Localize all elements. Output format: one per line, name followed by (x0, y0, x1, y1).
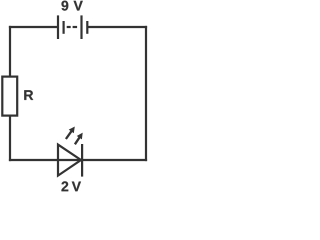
wire: top side, left of battery (9, 26, 58, 28)
wire: bottom side (9, 159, 147, 161)
LED light arrow 1 (upper left) (66, 127, 75, 140)
wire: top side, right of battery (87, 26, 147, 28)
battery plate: left cell short plate (62, 21, 64, 34)
battery value label 9 V (62, 1, 83, 11)
battery plate: right cell short plate (86, 21, 88, 34)
LED D1 triangle (anode) (58, 145, 81, 176)
resistor label R (24, 90, 33, 100)
wire: left side (9, 26, 11, 161)
battery plate: right cell long plate (80, 15, 82, 39)
battery plate: left cell long plate (57, 15, 59, 39)
battery dashed link dash 2 (73, 26, 78, 28)
resistor R (box symbol) (2, 77, 17, 116)
LED light arrow 2 (lower right) (75, 133, 83, 145)
battery B1 (9 V, two cells) (58, 15, 87, 39)
LED D1 cathode bar (81, 144, 83, 177)
LED value label 2 V (62, 181, 81, 191)
battery dashed link dash 1 (67, 26, 71, 28)
wire: right side (145, 26, 147, 161)
